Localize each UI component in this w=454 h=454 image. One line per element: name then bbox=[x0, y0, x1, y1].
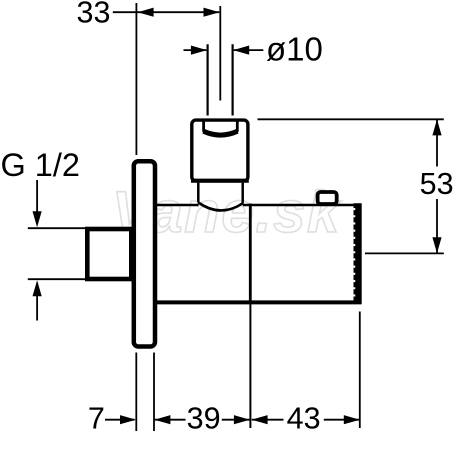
svg-text:33: 33 bbox=[77, 0, 111, 30]
svg-text:53: 53 bbox=[420, 167, 454, 201]
wire: bottom dimension line bbox=[105, 419, 135, 421]
svg-text:7: 7 bbox=[88, 402, 105, 436]
knob on body bbox=[318, 192, 337, 204]
wire: G1/2 up arrow bbox=[36, 295, 38, 321]
wire: 53 top extension bbox=[258, 118, 444, 120]
body top line bbox=[155, 204, 199, 206]
wire: pipe right edge bbox=[232, 44, 234, 115]
wire: pipe vertical centerline bbox=[219, 6, 221, 101]
cap heavy bottom edge bbox=[191, 179, 249, 183]
wire: extension line from flange front face up to 33-dim bbox=[135, 3, 137, 155]
watermark Vane.sk bbox=[112, 180, 342, 245]
body right face solid bbox=[354, 203, 362, 304]
wire: extension below right face bbox=[359, 312, 361, 429]
cap slot left side bbox=[202, 121, 205, 132]
wire: extension below flange back (wall) bbox=[153, 353, 155, 432]
wire: dimension line 53 bbox=[436, 120, 438, 167]
svg-text:43: 43 bbox=[287, 402, 321, 436]
cap slot bottom bbox=[203, 131, 237, 135]
wire: extension below middle bbox=[249, 304, 251, 428]
wire: 53 bottom extension / axis bbox=[365, 252, 444, 254]
valve top cap U-nut bbox=[192, 120, 248, 181]
wall flange bbox=[134, 161, 155, 346]
wire: pipe left edge bbox=[207, 44, 209, 115]
neck curve bbox=[198, 203, 242, 211]
wire: G1/2 down arrow bbox=[36, 180, 38, 213]
stem left side bbox=[197, 183, 200, 203]
body middle joint line bbox=[249, 204, 252, 303]
connector square G1/2 bbox=[87, 229, 131, 279]
cap slot right side bbox=[236, 121, 239, 132]
body right hidden thread dashed notches bbox=[353, 208, 355, 299]
svg-text:G 1/2: G 1/2 bbox=[1, 147, 81, 183]
body bottom line bbox=[155, 300, 362, 304]
svg-text:39: 39 bbox=[187, 402, 221, 436]
svg-text:ø10: ø10 bbox=[266, 31, 323, 68]
wire: dimension line 33 bbox=[113, 11, 220, 13]
wire: G1/2 bottom extension bbox=[28, 278, 86, 280]
wire: G1/2 top extension bbox=[28, 227, 86, 229]
wire: dimension line o10 bbox=[184, 49, 207, 51]
wire: extension below flange front bbox=[135, 353, 137, 432]
stem right side bbox=[241, 183, 244, 204]
